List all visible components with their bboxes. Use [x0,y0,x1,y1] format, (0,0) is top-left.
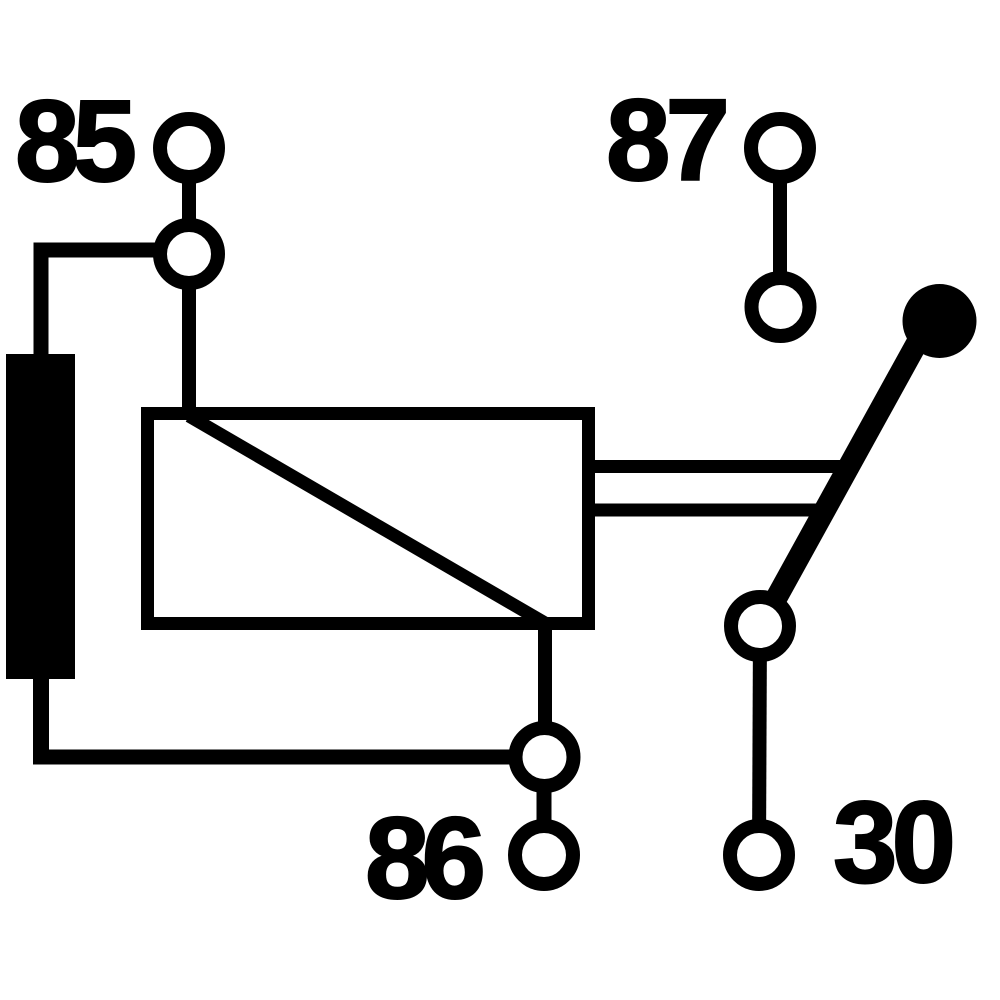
wire: node 86 junction down to pin 86 terminal [537,757,552,855]
wire: pin 87 terminal to contact [773,148,787,307]
terminal circle pin 30 [730,826,788,884]
mechanical link upper line [595,460,858,473]
svg-text:86: 86 [365,793,483,923]
contact circle 87 (normally open contact) [752,278,810,336]
wire: junction node left to resistor top [41,250,189,360]
svg-text:87: 87 [606,75,726,205]
terminal circle pin 85 [160,119,218,177]
wire: pin 85 terminal to junction node [182,148,196,254]
mechanical link lower line [595,504,832,517]
wire: resistor bottom to bottom rail [33,676,49,757]
svg-text:85: 85 [15,76,135,206]
wire: junction node down to coil box [182,254,196,414]
svg-text:30: 30 [833,777,952,907]
contact circle 30 (armature contact) [731,597,789,655]
armature pivot dot [903,284,977,358]
resistor R1 (filled bar) [6,354,75,679]
terminal circle pin 86 [515,826,573,884]
wire: coil box bottom to node 86 [538,620,552,757]
node A: coil junction circle (pin 85 side) [160,225,218,283]
wire: bottom rail to node 86 [33,750,544,765]
wire: contact 30 to pin 30 terminal [759,626,760,855]
switch armature [762,323,928,624]
coil K1 box [148,414,589,624]
terminal circle pin 87 [751,119,809,177]
node B: junction circle 86 [516,728,574,786]
coil K1 diagonal [189,416,545,623]
